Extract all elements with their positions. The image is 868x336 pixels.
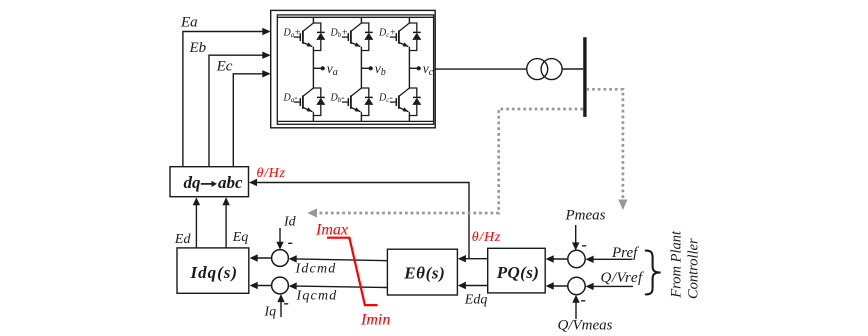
svg-text:Idq(s): Idq(s) <box>190 263 239 282</box>
svg-text:Dc-: Dc- <box>378 92 393 104</box>
svg-text:Pmeas: Pmeas <box>565 208 606 224</box>
svg-text:Imin: Imin <box>360 312 390 329</box>
svg-text:Q/Vmeas: Q/Vmeas <box>558 318 613 334</box>
svg-text:Edq: Edq <box>464 293 488 308</box>
svg-text:Da+: Da+ <box>283 27 301 39</box>
svg-text:-: - <box>284 295 289 312</box>
svg-text:Id: Id <box>283 215 297 230</box>
svg-text:Db-: Db- <box>330 92 345 104</box>
svg-text:Da-: Da- <box>283 92 298 104</box>
svg-text:θ/Hz: θ/Hz <box>257 166 286 181</box>
svg-text:Eθ(s): Eθ(s) <box>403 263 445 282</box>
svg-text:PQ(s): PQ(s) <box>496 263 540 282</box>
svg-text:Eq: Eq <box>232 230 249 245</box>
svg-text:-: - <box>288 234 293 251</box>
svg-text:Ed: Ed <box>174 232 192 247</box>
svg-text:va: va <box>327 61 338 78</box>
svg-text:dq: dq <box>184 173 202 192</box>
svg-text:θ/Hz: θ/Hz <box>472 230 501 245</box>
svg-text:Q/Vref: Q/Vref <box>601 270 644 286</box>
svg-text:From Plant: From Plant <box>669 230 685 299</box>
svg-text:Dc+: Dc+ <box>378 27 396 39</box>
svg-text:-: - <box>581 292 586 309</box>
svg-text:vc: vc <box>423 61 434 78</box>
svg-text:vb: vb <box>375 61 386 78</box>
svg-text:abc: abc <box>218 173 243 192</box>
svg-text:Eb: Eb <box>189 40 207 56</box>
svg-text:Db+: Db+ <box>330 27 348 39</box>
svg-text:Ea: Ea <box>180 15 198 31</box>
svg-text:Idcmd: Idcmd <box>295 261 337 276</box>
svg-text:Pref: Pref <box>611 245 639 261</box>
svg-text:Iqcmd: Iqcmd <box>296 289 338 304</box>
svg-text:Ec: Ec <box>216 59 233 75</box>
svg-text:Controller: Controller <box>686 238 702 299</box>
svg-text:Iq: Iq <box>264 305 277 320</box>
svg-text:Imax: Imax <box>315 222 348 239</box>
svg-text:-: - <box>582 237 587 254</box>
